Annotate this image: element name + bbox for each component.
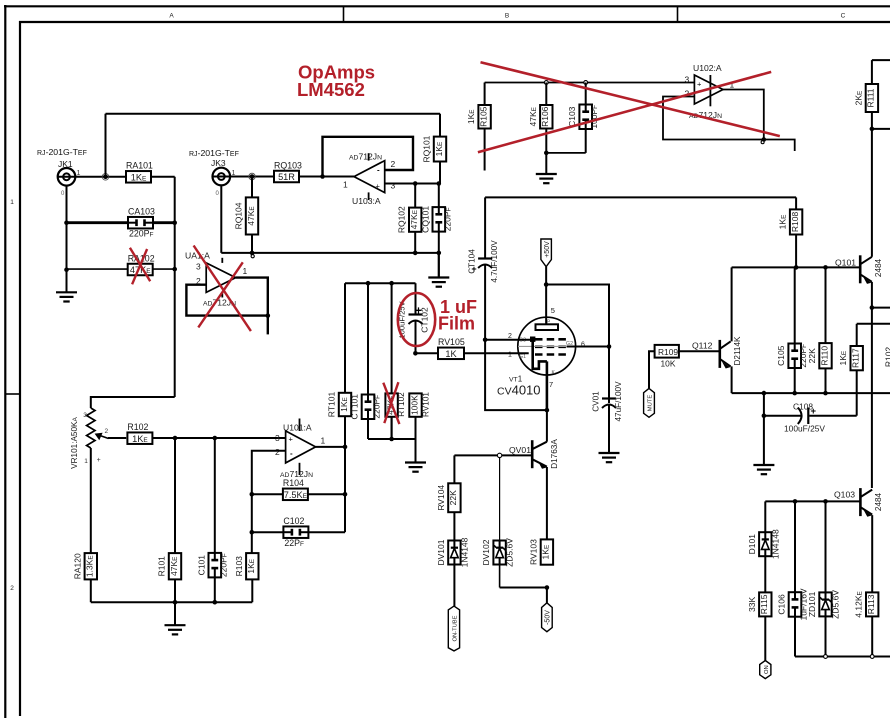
- svg-text:+50V: +50V: [544, 241, 551, 258]
- svg-text:R111: R111: [866, 88, 876, 107]
- svg-text:1: 1: [343, 180, 348, 190]
- svg-text:RT102: RT102: [397, 392, 406, 417]
- svg-text:7: 7: [549, 380, 553, 389]
- svg-text:+: +: [376, 182, 381, 191]
- svg-text:22K: 22K: [448, 490, 458, 505]
- svg-text:100uF/25V: 100uF/25V: [784, 424, 825, 434]
- svg-text:JK1: JK1: [58, 159, 73, 169]
- svg-text:+: +: [811, 406, 817, 417]
- svg-text:ZD5.6V: ZD5.6V: [505, 538, 515, 567]
- svg-text:+: +: [415, 306, 422, 318]
- svg-text:+: +: [471, 264, 476, 274]
- svg-text:D1763A: D1763A: [550, 439, 559, 469]
- svg-text:D101: D101: [747, 534, 757, 555]
- svg-text:ZD101: ZD101: [807, 591, 817, 617]
- svg-text:R113: R113: [866, 594, 876, 614]
- svg-text:C102: C102: [283, 516, 304, 526]
- svg-text:ZD5.6V: ZD5.6V: [831, 590, 841, 619]
- svg-text:LM4562: LM4562: [297, 79, 365, 100]
- svg-text:1: 1: [243, 266, 248, 276]
- svg-text:ON: ON: [764, 665, 770, 674]
- svg-text:CV01: CV01: [592, 391, 601, 412]
- svg-text:1N4148: 1N4148: [459, 537, 469, 567]
- svg-text:RV103: RV103: [528, 539, 538, 565]
- svg-text:B: B: [505, 13, 509, 20]
- svg-text:1K: 1K: [445, 349, 457, 359]
- svg-text:3: 3: [391, 181, 396, 191]
- svg-text:DV101: DV101: [436, 539, 446, 565]
- svg-text:R106: R106: [540, 106, 550, 127]
- svg-text:RT101: RT101: [327, 392, 337, 418]
- svg-text:RV104: RV104: [436, 485, 446, 511]
- svg-text:ON-TUBE: ON-TUBE: [453, 615, 459, 641]
- svg-text:C101: C101: [196, 555, 206, 576]
- svg-text:RV105: RV105: [438, 337, 465, 347]
- svg-text:RV101: RV101: [422, 392, 431, 417]
- svg-text:RQ102: RQ102: [397, 206, 407, 233]
- svg-text:C105: C105: [776, 345, 786, 366]
- svg-text:MUTE: MUTE: [648, 395, 654, 412]
- svg-text:3: 3: [275, 433, 280, 443]
- svg-text:U101:A: U101:A: [283, 423, 312, 433]
- svg-text:1: 1: [10, 199, 14, 206]
- svg-text:R115: R115: [759, 594, 769, 614]
- svg-text:RQ101: RQ101: [422, 135, 432, 162]
- svg-text:U102:A: U102:A: [693, 63, 722, 73]
- svg-text:4.7uF/100V: 4.7uF/100V: [490, 240, 499, 283]
- svg-text:CA103: CA103: [128, 206, 155, 216]
- svg-text:A: A: [169, 13, 174, 20]
- svg-text:CV4010: CV4010: [497, 383, 541, 398]
- svg-text:2: 2: [10, 585, 14, 592]
- svg-text:R101: R101: [157, 556, 167, 577]
- svg-text:22K: 22K: [807, 348, 817, 363]
- svg-text:2: 2: [391, 159, 396, 169]
- svg-text:JK3: JK3: [211, 158, 226, 168]
- svg-text:47uF/100V: 47uF/100V: [614, 381, 623, 422]
- svg-text:+: +: [697, 80, 702, 89]
- svg-text:51R: 51R: [278, 172, 295, 182]
- svg-text:R102: R102: [884, 347, 890, 368]
- svg-text:2: 2: [275, 447, 280, 457]
- svg-text:R108: R108: [790, 212, 800, 233]
- svg-text:Q101: Q101: [835, 258, 856, 268]
- svg-text:VR101:A50KA: VR101:A50KA: [70, 417, 79, 469]
- svg-text:R110: R110: [819, 346, 829, 366]
- svg-text:10K: 10K: [661, 359, 676, 369]
- svg-text:R103: R103: [234, 556, 244, 577]
- svg-text:R109: R109: [658, 347, 678, 357]
- svg-text:RQ104: RQ104: [234, 202, 244, 229]
- svg-text:CT101: CT101: [350, 394, 360, 420]
- svg-text:-: -: [290, 449, 293, 458]
- svg-text:3: 3: [196, 262, 201, 272]
- svg-text:RA120: RA120: [72, 553, 82, 579]
- svg-text:1N4148: 1N4148: [770, 529, 780, 559]
- svg-text:K: K: [552, 370, 556, 376]
- svg-text:R102: R102: [127, 422, 148, 432]
- svg-text:Film: Film: [438, 314, 475, 334]
- svg-text:3: 3: [685, 75, 690, 85]
- svg-text:RA101: RA101: [126, 161, 153, 171]
- svg-text:C: C: [841, 13, 846, 20]
- svg-text:D2114K: D2114K: [733, 336, 742, 366]
- svg-text:R104: R104: [283, 478, 304, 488]
- svg-text:DV102: DV102: [481, 539, 491, 565]
- svg-text:+: +: [97, 457, 101, 464]
- svg-text:-50V: -50V: [545, 610, 552, 625]
- svg-text:C103: C103: [567, 106, 577, 127]
- svg-text:33K: 33K: [747, 597, 757, 612]
- svg-text:-: -: [377, 166, 380, 175]
- svg-text:3: 3: [83, 412, 87, 419]
- svg-text:RQ103: RQ103: [274, 160, 302, 170]
- svg-text:CQ101: CQ101: [420, 206, 430, 233]
- svg-text:C106: C106: [777, 594, 787, 615]
- svg-text:2: 2: [105, 428, 109, 435]
- svg-text:QV01: QV01: [509, 445, 531, 455]
- svg-text:5: 5: [551, 306, 555, 315]
- svg-text:Q103: Q103: [834, 490, 855, 500]
- svg-text:Q112: Q112: [692, 341, 713, 351]
- svg-text:2484: 2484: [874, 258, 883, 277]
- svg-text:G1: G1: [519, 354, 526, 360]
- svg-text:100K: 100K: [409, 395, 419, 415]
- svg-text:1: 1: [84, 458, 88, 465]
- svg-text:2484: 2484: [874, 492, 883, 511]
- svg-text:1: 1: [321, 436, 326, 446]
- svg-text:U103:A: U103:A: [352, 196, 381, 206]
- svg-text:R117: R117: [851, 348, 861, 368]
- svg-text:+: +: [289, 435, 294, 444]
- svg-text:R105: R105: [478, 106, 488, 127]
